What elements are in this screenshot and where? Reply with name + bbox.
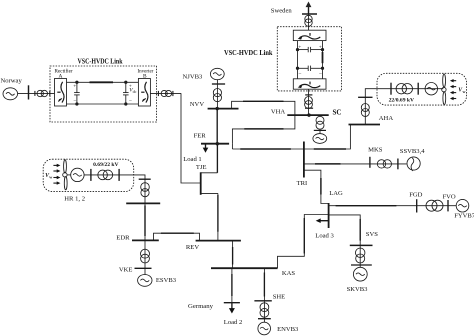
svg-text:w: w: [463, 89, 466, 94]
svg-text:+: +: [319, 44, 322, 50]
svg-text:+: +: [73, 84, 76, 90]
svg-text:0.69/22 kV: 0.69/22 kV: [93, 162, 119, 168]
svg-text:ENVB3: ENVB3: [277, 326, 299, 333]
svg-text:+: +: [298, 44, 301, 50]
svg-text:Sweden: Sweden: [271, 8, 293, 15]
svg-text:−: −: [73, 99, 76, 105]
svg-text:TRI: TRI: [297, 180, 308, 187]
svg-text:VHA: VHA: [271, 109, 286, 116]
svg-text:B: B: [143, 74, 147, 80]
svg-text:FER: FER: [194, 133, 207, 140]
svg-text:+: +: [129, 84, 132, 90]
svg-text:Load 1: Load 1: [183, 156, 202, 163]
svg-text:SHE: SHE: [273, 294, 285, 301]
svg-text:SSVB3,4: SSVB3,4: [400, 148, 425, 155]
svg-text:SKVB3: SKVB3: [347, 286, 369, 293]
svg-text:NJVB3: NJVB3: [183, 74, 203, 81]
svg-text:MKS: MKS: [368, 146, 383, 153]
svg-text:HR 1, 2: HR 1, 2: [64, 195, 85, 202]
svg-text:Load 3: Load 3: [315, 233, 334, 240]
svg-text:dc: dc: [133, 89, 137, 94]
svg-text:−: −: [298, 71, 301, 77]
svg-text:VSC-HVDC Link: VSC-HVDC Link: [224, 48, 273, 57]
svg-text:w: w: [49, 175, 52, 180]
svg-text:FGD: FGD: [409, 191, 422, 198]
svg-text:LAG: LAG: [329, 190, 343, 197]
svg-text:Load 2: Load 2: [224, 319, 243, 326]
svg-text:REV: REV: [186, 244, 199, 251]
svg-text:FYVB7: FYVB7: [454, 213, 474, 220]
svg-text:AHA: AHA: [379, 115, 394, 122]
svg-text:NVV: NVV: [190, 101, 205, 108]
svg-text:Rectifier: Rectifier: [55, 68, 73, 75]
svg-text:FVO: FVO: [443, 193, 456, 200]
svg-text:VKE: VKE: [119, 267, 133, 274]
svg-text:VSC-HVDC Link: VSC-HVDC Link: [78, 56, 124, 65]
svg-text:EDR: EDR: [116, 234, 130, 241]
svg-text:Germany: Germany: [188, 303, 214, 310]
svg-text:Norway: Norway: [1, 78, 23, 85]
svg-text:KAS: KAS: [282, 270, 296, 277]
svg-text:A: A: [59, 74, 63, 80]
svg-text:ESVB3: ESVB3: [156, 277, 177, 284]
svg-text:TJE: TJE: [196, 164, 207, 171]
svg-text:SVS: SVS: [366, 231, 378, 238]
svg-text:22/0.69 kV: 22/0.69 kV: [389, 98, 415, 104]
svg-text:−: −: [129, 99, 132, 105]
svg-text:−: −: [319, 71, 322, 77]
svg-text:SC: SC: [333, 108, 342, 116]
